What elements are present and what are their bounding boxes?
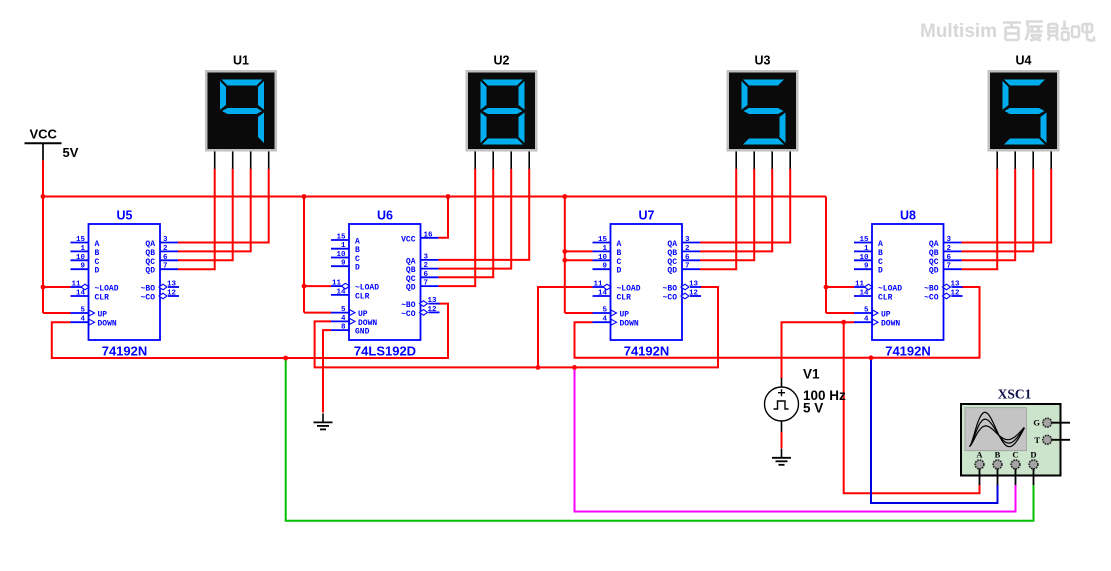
wire tap to U7 UP	[565, 312, 593, 314]
svg-text:74LS192D: 74LS192D	[354, 343, 416, 358]
svg-text:74192N: 74192N	[885, 343, 931, 358]
svg-text:13: 13	[689, 281, 699, 289]
svg-text:8: 8	[341, 324, 346, 332]
svg-text:11: 11	[593, 281, 603, 289]
svg-text:QA: QA	[667, 240, 677, 249]
junction scope A tap	[841, 320, 846, 325]
svg-text:C: C	[95, 258, 100, 267]
seven-segment display U1	[205, 54, 277, 169]
wire tap to U7 B	[565, 250, 593, 252]
svg-text:14: 14	[598, 290, 608, 298]
scope terminal T	[1051, 439, 1070, 441]
svg-text:B: B	[355, 246, 360, 255]
wire U7 QA to display	[700, 169, 790, 243]
svg-text:2: 2	[424, 262, 429, 270]
svg-text:G: G	[1033, 418, 1040, 428]
svg-text:QB: QB	[667, 249, 677, 258]
svg-text:3: 3	[947, 236, 952, 244]
svg-text:U1: U1	[233, 54, 249, 68]
svg-text:QA: QA	[929, 240, 939, 249]
wire bus drop to U5 LOAD/UP	[42, 197, 44, 314]
svg-text:13: 13	[167, 281, 177, 289]
svg-text:A: A	[878, 240, 883, 249]
svg-text:D: D	[95, 267, 100, 276]
wire scope channel D (green)	[286, 358, 1034, 521]
svg-text:9: 9	[864, 263, 869, 271]
svg-text:A: A	[617, 240, 622, 249]
svg-text:5: 5	[341, 306, 346, 314]
svg-text:CLR: CLR	[355, 292, 370, 301]
svg-text:GND: GND	[355, 328, 370, 337]
wire tap to U6 UP	[304, 312, 331, 314]
svg-text:15: 15	[598, 236, 608, 244]
svg-text:U5: U5	[117, 209, 133, 223]
wire U6 GND pin to ground	[323, 330, 331, 412]
svg-text:5: 5	[80, 307, 85, 315]
svg-text:10: 10	[598, 254, 608, 262]
ground (V1)	[772, 449, 791, 465]
svg-text:QD: QD	[406, 284, 416, 293]
oscilloscope XSC1	[961, 387, 1070, 486]
svg-text:6: 6	[947, 254, 952, 262]
wire U7 QB to display	[700, 169, 772, 252]
svg-text:5 V: 5 V	[803, 401, 823, 416]
svg-text:~CO: ~CO	[924, 294, 939, 303]
svg-text:7: 7	[163, 263, 168, 271]
svg-text:~LOAD: ~LOAD	[95, 285, 119, 294]
junction bus-U6 drop	[302, 194, 307, 199]
svg-text:~LOAD: ~LOAD	[878, 285, 902, 294]
svg-text:U7: U7	[639, 209, 655, 223]
svg-text:74192N: 74192N	[102, 343, 148, 358]
svg-text:3: 3	[163, 236, 168, 244]
svg-text:D: D	[617, 267, 622, 276]
svg-text:12: 12	[689, 290, 699, 298]
svg-text:6: 6	[424, 271, 429, 279]
junction magenta tap	[572, 365, 577, 370]
svg-text:CLR: CLR	[617, 294, 632, 303]
svg-text:4: 4	[80, 316, 85, 324]
svg-text:5: 5	[864, 307, 869, 315]
svg-text:15: 15	[336, 234, 346, 242]
svg-text:7: 7	[947, 263, 952, 271]
wire U5 QD to display	[178, 169, 215, 270]
svg-text:QA: QA	[406, 257, 416, 266]
svg-text:CLR: CLR	[878, 294, 893, 303]
svg-text:C: C	[617, 258, 622, 267]
svg-text:2: 2	[685, 245, 690, 253]
wire U8 DOWN to V1 plus	[782, 322, 855, 378]
svg-text:12: 12	[428, 306, 438, 314]
wire U5 QC to display	[178, 169, 233, 261]
svg-text:13: 13	[951, 281, 961, 289]
svg-text:UP: UP	[358, 310, 368, 319]
svg-text:C: C	[878, 258, 883, 267]
svg-text:T: T	[1034, 435, 1040, 445]
scope terminal B	[997, 468, 999, 485]
svg-text:~LOAD: ~LOAD	[355, 284, 379, 293]
wire U8 QA to display	[962, 169, 1052, 243]
pulse voltage source V1 100Hz 5V	[765, 367, 847, 432]
wire U7 ~LOAD drop	[538, 287, 593, 367]
svg-text:1: 1	[864, 245, 869, 253]
svg-text:V1: V1	[803, 367, 820, 382]
power VCC 5V	[25, 127, 79, 161]
wire tap to U6 ~LOAD	[304, 285, 331, 287]
svg-text:15: 15	[76, 236, 86, 244]
wire U7 QC to display	[700, 169, 754, 261]
junction green tap	[283, 356, 288, 361]
svg-text:4: 4	[341, 315, 346, 323]
svg-text:1: 1	[602, 245, 607, 253]
wire U6 QA to display	[439, 169, 530, 260]
wire bus corner down to U8 LOAD/UP	[825, 197, 827, 314]
svg-text:DOWN: DOWN	[620, 320, 639, 329]
wire scope channel C (magenta)	[575, 367, 1016, 511]
svg-text:3: 3	[685, 236, 690, 244]
svg-text:14: 14	[859, 290, 869, 298]
seven-segment display U2	[466, 54, 538, 169]
scope terminal C	[1015, 468, 1017, 485]
svg-text:D: D	[878, 267, 883, 276]
svg-text:U4: U4	[1016, 54, 1032, 68]
svg-text:QD: QD	[667, 267, 677, 276]
svg-text:74192N: 74192N	[624, 343, 670, 358]
svg-text:6: 6	[685, 254, 690, 262]
svg-text:7: 7	[424, 280, 429, 288]
svg-text:D: D	[355, 264, 360, 273]
junction U5 LOAD tap	[41, 285, 46, 290]
svg-text:A: A	[95, 240, 100, 249]
wire bus drop to U7	[564, 197, 566, 314]
wire VCC top bus	[42, 196, 826, 198]
svg-text:9: 9	[80, 263, 85, 271]
ground (U6 GND)	[314, 413, 333, 429]
svg-text:~CO: ~CO	[663, 294, 678, 303]
junction U6 LOAD tap	[302, 284, 307, 289]
wire scope channel B (blue)	[871, 358, 998, 503]
svg-text:QA: QA	[145, 240, 155, 249]
svg-text:U6: U6	[377, 209, 393, 223]
svg-text:QC: QC	[929, 258, 939, 267]
wire U5 DOWN to U6 ~BO	[52, 304, 448, 358]
wire tap to U5 ~LOAD	[43, 286, 71, 288]
svg-text:UP: UP	[881, 311, 891, 320]
junction U7 B tap	[562, 249, 567, 254]
junction U8 LOAD tap	[824, 285, 829, 290]
svg-text:14: 14	[76, 290, 86, 298]
scope terminal G	[1051, 422, 1070, 424]
svg-text:QD: QD	[145, 267, 155, 276]
svg-text:DOWN: DOWN	[98, 320, 117, 329]
svg-text:~BO: ~BO	[663, 285, 678, 294]
svg-text:B: B	[95, 249, 100, 258]
svg-text:11: 11	[71, 281, 81, 289]
wire tap to U8 ~LOAD	[826, 286, 854, 288]
counter U8 74192N	[854, 209, 963, 359]
svg-text:1: 1	[80, 245, 85, 253]
counter U5 74192N	[71, 209, 180, 359]
svg-text:UP: UP	[98, 311, 108, 320]
svg-text:A: A	[355, 238, 360, 247]
svg-text:11: 11	[332, 280, 342, 288]
svg-text:~LOAD: ~LOAD	[617, 285, 641, 294]
scope terminal D	[1033, 468, 1035, 485]
junction blue tap	[869, 355, 874, 360]
svg-text:10: 10	[859, 254, 869, 262]
svg-text:B: B	[878, 249, 883, 258]
svg-text:U3: U3	[755, 54, 771, 68]
wire U6 QB to display	[439, 169, 512, 269]
svg-text:11: 11	[855, 281, 865, 289]
svg-text:12: 12	[951, 290, 961, 298]
svg-text:QC: QC	[145, 258, 155, 267]
wire tap to U8 UP	[826, 312, 854, 314]
svg-text:6: 6	[163, 254, 168, 262]
svg-text:~BO: ~BO	[924, 285, 939, 294]
svg-text:XSC1: XSC1	[998, 387, 1032, 402]
svg-text:16: 16	[424, 231, 434, 239]
watermark CJK 百度贴吧	[1003, 21, 1094, 41]
svg-text:DOWN: DOWN	[881, 320, 900, 329]
svg-text:VCC: VCC	[30, 127, 58, 142]
wire tap to U5 UP	[43, 312, 71, 314]
svg-text:~CO: ~CO	[141, 294, 156, 303]
wire bus drop to U6 VCC pin16	[439, 197, 449, 238]
svg-text:DOWN: DOWN	[358, 319, 377, 328]
svg-text:10: 10	[336, 251, 346, 259]
svg-text:7: 7	[685, 263, 690, 271]
svg-text:CLR: CLR	[95, 294, 110, 303]
counter U6 74LS192D	[331, 209, 440, 359]
wire V1 minus to ground	[781, 432, 783, 449]
svg-text:12: 12	[167, 290, 177, 298]
svg-text:QB: QB	[406, 266, 416, 275]
svg-text:~BO: ~BO	[401, 301, 416, 310]
svg-text:A: A	[976, 450, 983, 460]
wire U8 QB to display	[962, 169, 1034, 252]
seven-segment display U4	[988, 54, 1060, 169]
seven-segment display U3	[727, 54, 799, 169]
svg-text:B: B	[617, 249, 622, 258]
wire U7 QD to display	[700, 169, 736, 270]
svg-text:4: 4	[864, 316, 869, 324]
wire tap to U7 C	[565, 259, 593, 261]
svg-text:QC: QC	[667, 258, 677, 267]
svg-text:VCC: VCC	[401, 235, 416, 244]
svg-text:UP: UP	[620, 311, 630, 320]
svg-text:13: 13	[428, 297, 438, 305]
wire VCC stub down	[42, 160, 44, 196]
counter U7 74192N	[593, 209, 702, 359]
junction bus-U6 VCC	[446, 194, 451, 199]
wire U8 QD to display	[962, 169, 998, 270]
svg-text:9: 9	[341, 260, 346, 268]
svg-text:Multisim: Multisim	[920, 21, 997, 42]
svg-text:4: 4	[602, 316, 607, 324]
wire U5 QA to display	[178, 169, 269, 243]
scope terminal A	[979, 468, 981, 485]
svg-text:C: C	[355, 255, 360, 264]
svg-text:9: 9	[602, 263, 607, 271]
junction VCC/bus	[41, 194, 46, 199]
svg-text:QB: QB	[929, 249, 939, 258]
svg-text:~CO: ~CO	[401, 310, 416, 319]
svg-text:3: 3	[424, 253, 429, 261]
svg-text:QB: QB	[145, 249, 155, 258]
svg-text:U8: U8	[900, 209, 916, 223]
junction bus-U7 drop	[562, 194, 567, 199]
svg-text:~BO: ~BO	[141, 285, 156, 294]
svg-text:U2: U2	[494, 54, 510, 68]
wire U5 QB to display	[178, 169, 251, 252]
svg-text:D: D	[1030, 450, 1036, 460]
svg-text:1: 1	[341, 242, 346, 250]
wire U6 DOWN to U7 ~BO	[315, 287, 718, 367]
wire bus drop to U6 LOAD/UP	[303, 197, 305, 313]
svg-text:10: 10	[76, 254, 86, 262]
wire U6 QD to display	[439, 169, 476, 287]
wire scope channel A (red)	[844, 322, 980, 493]
svg-text:5: 5	[602, 307, 607, 315]
wire U7 DOWN to U8 ~BO	[575, 287, 980, 358]
wire U6 QC to display	[439, 169, 494, 278]
svg-text:15: 15	[859, 236, 869, 244]
svg-text:2: 2	[163, 245, 168, 253]
svg-text:C: C	[1012, 450, 1018, 460]
wire U8 QC to display	[962, 169, 1016, 261]
svg-text:QD: QD	[929, 267, 939, 276]
svg-text:5V: 5V	[63, 145, 79, 160]
junction U7 LOAD join	[536, 365, 541, 370]
svg-text:B: B	[995, 450, 1001, 460]
svg-text:2: 2	[947, 245, 952, 253]
svg-text:14: 14	[336, 288, 346, 296]
junction U7 C tap	[562, 258, 567, 263]
svg-text:QC: QC	[406, 275, 416, 284]
